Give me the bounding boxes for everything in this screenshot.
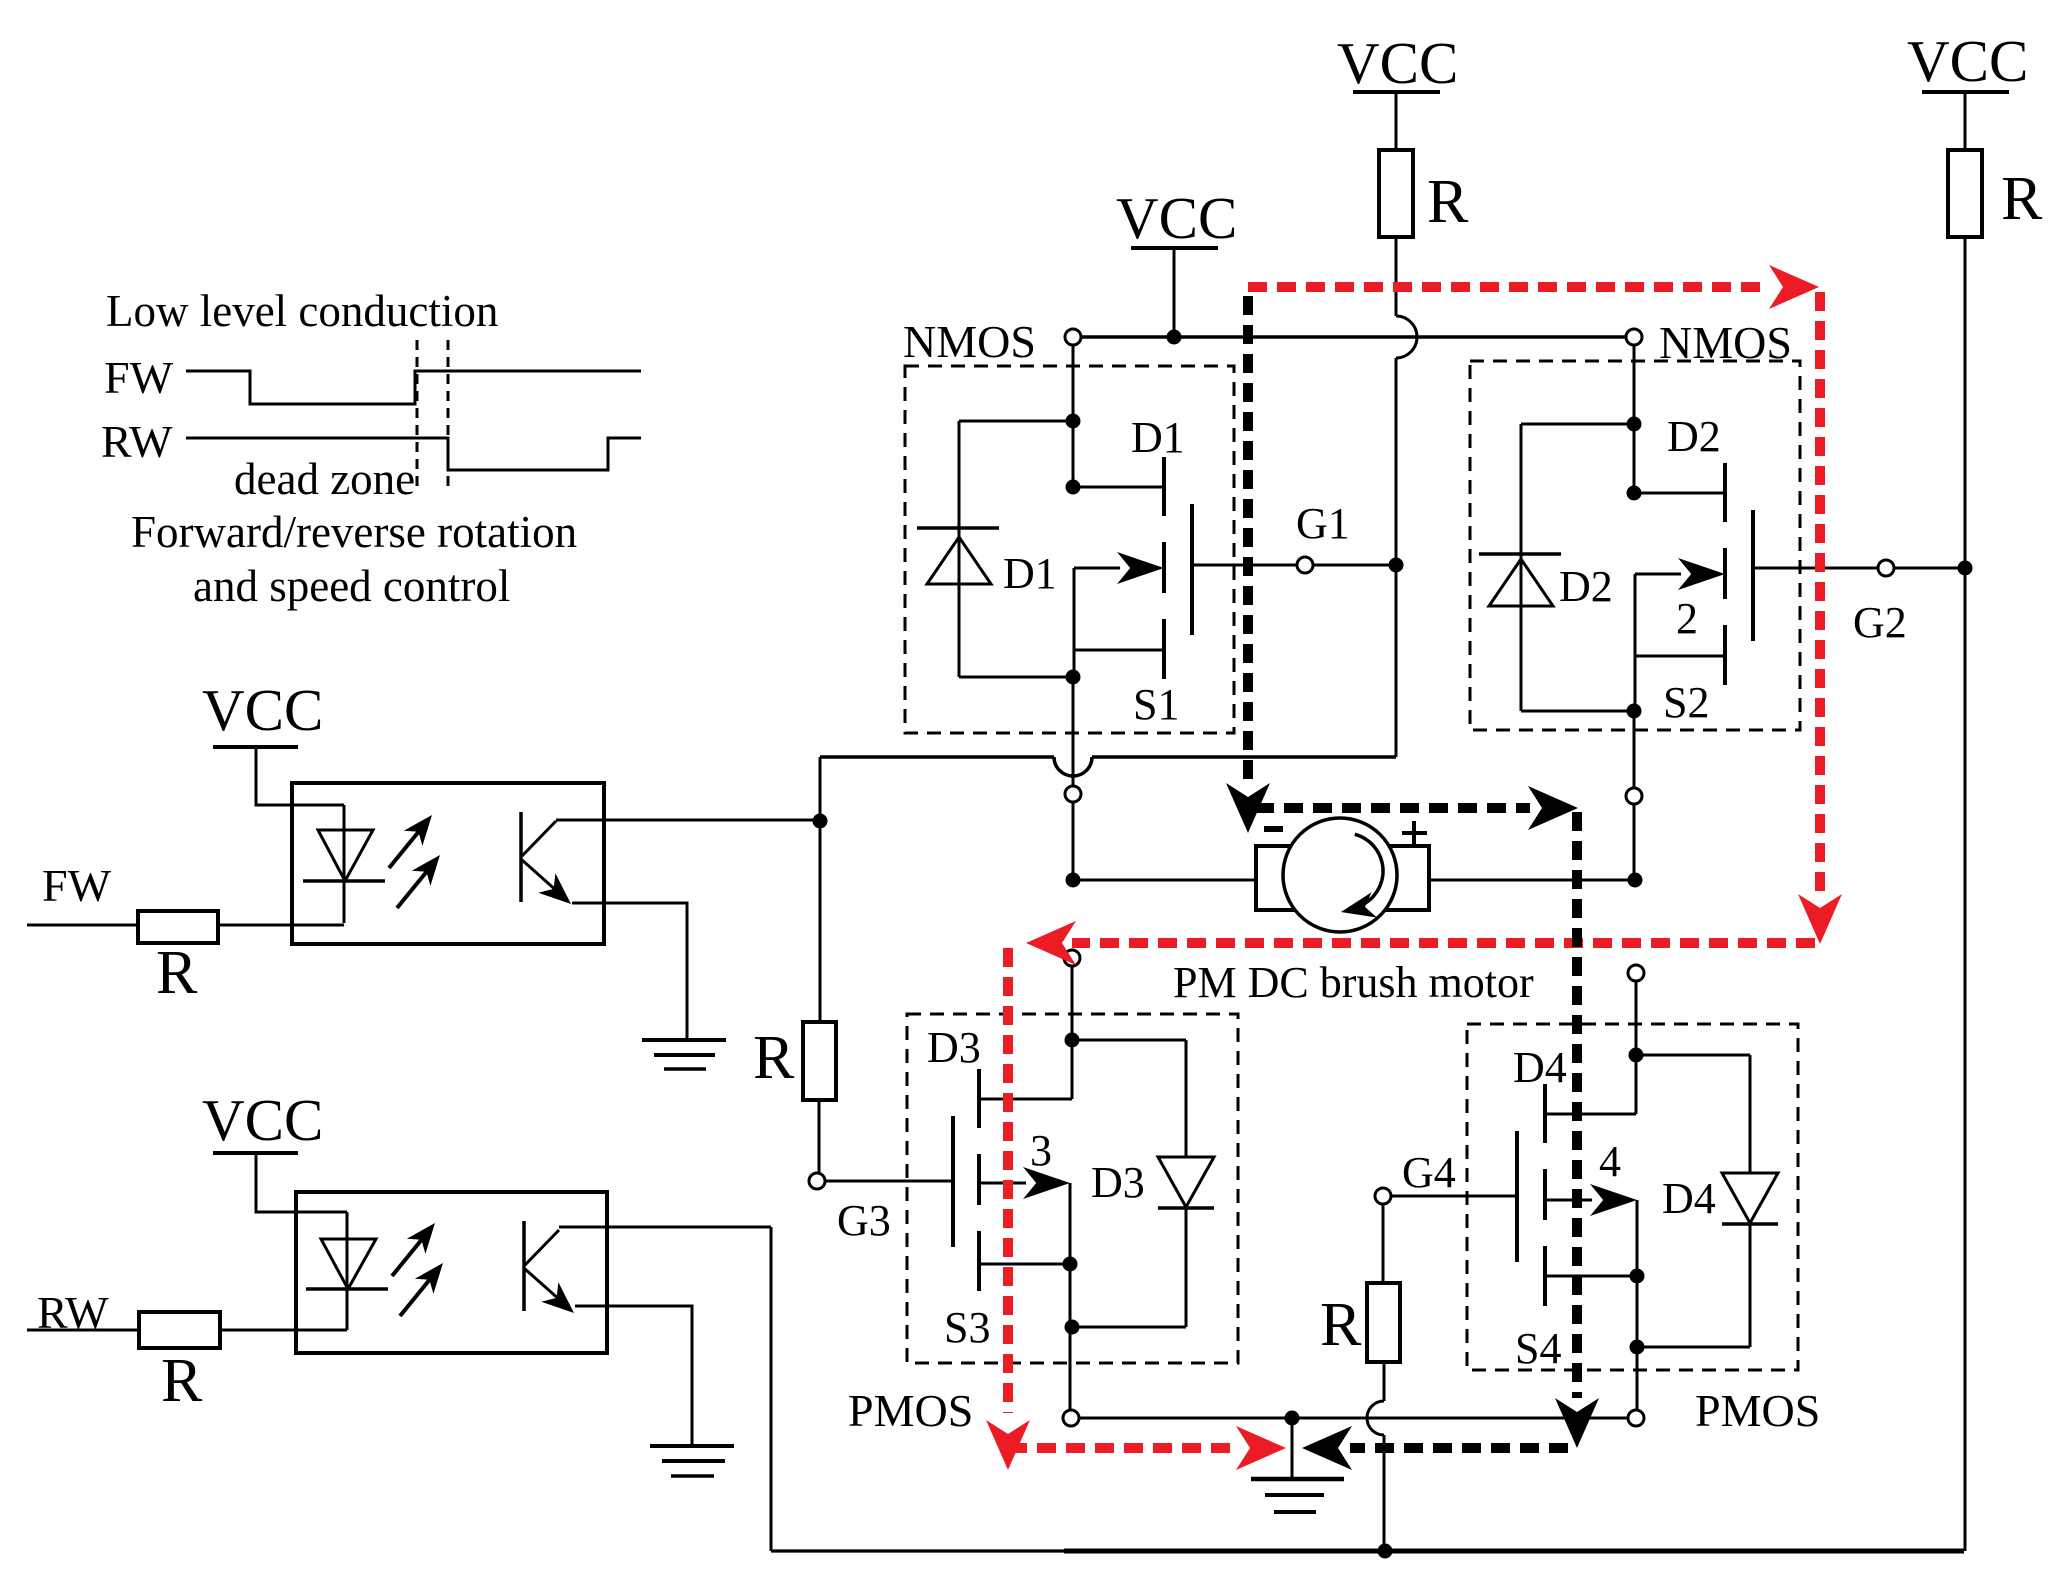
- wire motor right: [1429, 879, 1635, 882]
- optocoupler U1 box: [292, 783, 604, 944]
- node Q1 drain terminal: [1065, 329, 1081, 345]
- text NMOS label (Q1): [903, 316, 1036, 367]
- node Q1 source terminal: [1065, 786, 1081, 802]
- svg-text:NMOS: NMOS: [903, 316, 1036, 367]
- text R label (G1 pull-up): [1427, 168, 1469, 236]
- text: and speed control: [193, 561, 510, 611]
- wire Q1 gate-protect branch: [959, 421, 1073, 677]
- wire Q2 gate-protect branch: [1521, 424, 1634, 711]
- svg-text:D2: D2: [1667, 412, 1721, 461]
- power VCC (bridge supply): [1116, 185, 1237, 251]
- wire D3 to source: [1072, 1208, 1186, 1327]
- svg-text:S1: S1: [1133, 680, 1179, 729]
- svg-text:D3: D3: [927, 1023, 981, 1072]
- svg-text:PMOS: PMOS: [1695, 1385, 1820, 1436]
- wire black path right down: [1555, 812, 1599, 1448]
- node FW (timing label): [104, 352, 174, 403]
- node A junction (FW gate node): [813, 814, 828, 829]
- text PM DC brush motor: [1173, 958, 1534, 1007]
- wire Q3 drain lead: [979, 1098, 1072, 1101]
- diode D3 (protect): [1158, 1157, 1214, 1208]
- svg-text:VCC: VCC: [1907, 28, 2028, 94]
- text minus terminal: [1264, 826, 1283, 832]
- text S2 label: [1663, 678, 1709, 727]
- node Q3 top terminal: [1064, 950, 1080, 966]
- svg-text:PM DC brush motor: PM DC brush motor: [1173, 958, 1534, 1007]
- diode LED of U1: [303, 805, 385, 923]
- text D1 label (diode): [1003, 549, 1057, 598]
- node RW (timing label): [101, 416, 173, 467]
- wire FW waveform: [186, 371, 641, 404]
- wire G1 to pull-up: [1313, 564, 1396, 567]
- svg-text:and speed control: and speed control: [193, 561, 510, 611]
- svg-text:4: 4: [1599, 1137, 1621, 1186]
- transistor Q2 box: [1470, 361, 1800, 730]
- transistor Q4 gate bar: [1515, 1131, 1519, 1262]
- node D4 source junction: [1630, 1340, 1645, 1355]
- text S4 label: [1515, 1324, 1561, 1373]
- node Q4 source lead junction: [1630, 1269, 1645, 1284]
- node Q1 source junction: [1066, 670, 1081, 685]
- node Q4 top terminal: [1628, 965, 1644, 981]
- svg-text:VCC: VCC: [202, 1087, 323, 1153]
- text: Forward/reverse rotation: [131, 507, 577, 557]
- svg-text:Forward/reverse rotation: Forward/reverse rotation: [131, 507, 577, 557]
- wire VCC to R (right): [1964, 92, 1967, 150]
- motor M brush right: [1349, 846, 1429, 910]
- wire RW waveform: [186, 438, 641, 470]
- motor M brush left: [1256, 846, 1336, 910]
- svg-text:D1: D1: [1131, 413, 1185, 462]
- transistor Q4 channel: [1543, 1084, 1547, 1306]
- node RW input: [37, 1287, 109, 1338]
- node G1 terminal: [1297, 557, 1313, 573]
- svg-text:R: R: [753, 1024, 795, 1092]
- svg-text:FW: FW: [42, 860, 112, 911]
- wire Q4 source down: [1636, 1347, 1639, 1410]
- node bottom rail junction (G4 branch): [1378, 1544, 1393, 1559]
- wire G1 node to mid rail: [1395, 565, 1398, 757]
- wire D1 to source: [959, 676, 1073, 679]
- transistor Q6 phototransistor of U2: [524, 1221, 574, 1313]
- svg-text:S4: S4: [1515, 1324, 1561, 1373]
- wire red path top: [1248, 265, 1819, 309]
- wire Q1 source down: [1072, 677, 1075, 786]
- text D3 label (drain): [927, 1023, 981, 1072]
- svg-text:D2: D2: [1559, 562, 1613, 611]
- ground (U1 emitter): [642, 1040, 726, 1069]
- wire node A vertical: [819, 757, 822, 1022]
- optocoupler U2 box: [296, 1192, 607, 1353]
- wire G2 to pull-up: [1894, 567, 1965, 570]
- text PMOS label (Q4): [1695, 1385, 1820, 1436]
- transistor Q3 gate bar: [951, 1116, 955, 1247]
- wire black path rightward: [1255, 786, 1578, 830]
- node G2 pull-up junction: [1958, 561, 1973, 576]
- resistor R (FW input): [138, 911, 218, 943]
- wire Q1 drain lead: [1073, 486, 1164, 489]
- svg-text:G2: G2: [1853, 598, 1907, 647]
- svg-text:VCC: VCC: [202, 677, 323, 743]
- wire VCC to U2 LED anode: [256, 1153, 347, 1212]
- svg-text:RW: RW: [101, 416, 173, 467]
- wire VCC to R: [1395, 92, 1398, 150]
- node D3 source junction: [1065, 1320, 1080, 1335]
- power VCC (G1 pull-up): [1337, 30, 1458, 96]
- node Q1 feedback junction: [1066, 414, 1081, 429]
- node Q3 source terminal: [1063, 1410, 1079, 1426]
- light arrow 2 of U2: [400, 1263, 443, 1316]
- wire Q3 source connector: [979, 1183, 1070, 1327]
- wire U1 emitter to ground: [572, 903, 687, 1040]
- text: dead zone: [234, 454, 415, 504]
- wire Q3 source down: [1069, 1327, 1072, 1410]
- wire Q1 source connector: [1074, 568, 1164, 677]
- wire red path left down: [986, 948, 1030, 1470]
- svg-text:FW: FW: [104, 352, 174, 403]
- wire VCC to U1 LED anode: [256, 747, 344, 805]
- svg-text:G1: G1: [1296, 499, 1350, 548]
- wire bottom rail: [771, 1549, 1964, 1552]
- text D4 label (drain): [1513, 1043, 1567, 1092]
- svg-text:G4: G4: [1402, 1148, 1456, 1197]
- node Q3 feedback junction: [1065, 1033, 1080, 1048]
- svg-text:3: 3: [1030, 1126, 1052, 1175]
- wire RW input: [27, 1329, 139, 1332]
- svg-text:2: 2: [1676, 594, 1698, 643]
- wire S3 to S4 sources: [1079, 1417, 1628, 1420]
- resistor R (G4 series): [1367, 1283, 1400, 1362]
- text NMOS label (Q2): [1659, 317, 1792, 368]
- text R label (FW input): [156, 939, 198, 1007]
- text S3 label: [944, 1303, 990, 1352]
- svg-text:dead zone: dead zone: [234, 454, 415, 504]
- text PMOS label (Q3): [848, 1385, 973, 1436]
- wire VCC to top rail: [1173, 248, 1176, 337]
- node motor left junction: [1066, 873, 1081, 888]
- wire Q4 source connector: [1545, 1200, 1637, 1347]
- node G4 terminal: [1375, 1188, 1391, 1204]
- node Q4 feedback junction: [1629, 1048, 1644, 1063]
- light arrow 1 of U1: [389, 815, 432, 868]
- svg-text:D1: D1: [1003, 549, 1057, 598]
- wire Q3 top vertical: [1071, 966, 1074, 1099]
- wire Q2 drain vertical: [1633, 345, 1636, 493]
- text G2 label: [1853, 598, 1907, 647]
- power VCC (opto U2): [202, 1087, 323, 1153]
- wire FW input: [27, 924, 138, 927]
- svg-text:D4: D4: [1513, 1043, 1567, 1092]
- wire Q1 terminal to motor node: [1072, 802, 1075, 880]
- node motor right junction: [1628, 873, 1643, 888]
- node G3 terminal: [809, 1173, 825, 1189]
- node Q2 drain lead junction: [1627, 486, 1642, 501]
- transistor Q2 bulk arrow: [1635, 558, 1725, 590]
- text D2 label (drain): [1667, 412, 1721, 461]
- text plus terminal: [1402, 821, 1427, 846]
- text S1 label: [1133, 680, 1179, 729]
- node Q3 source lead junction: [1063, 1257, 1078, 1272]
- node top rail junction: [1167, 330, 1182, 345]
- transistor Q1 channel: [1162, 457, 1166, 679]
- svg-text:G3: G3: [837, 1196, 891, 1245]
- node G1 pull-up junction: [1389, 558, 1404, 573]
- transistor Q3 bulk arrow: [979, 1167, 1070, 1199]
- node Q2 feedback junction: [1627, 417, 1642, 432]
- svg-text:R: R: [2001, 165, 2043, 233]
- wire Q2 source down: [1633, 711, 1636, 788]
- diode D1 (protect): [917, 528, 999, 584]
- transistor Q1 bulk arrow: [1074, 552, 1164, 584]
- wire R down with hop over top rail: [1396, 237, 1417, 565]
- svg-text:VCC: VCC: [1116, 185, 1237, 251]
- wire R to G3: [818, 1100, 821, 1173]
- text 4 label (Q4): [1599, 1137, 1621, 1186]
- text D2 label (diode): [1559, 562, 1613, 611]
- node Q2 drain terminal: [1626, 329, 1642, 345]
- wire R to U2 LED cathode: [220, 1329, 347, 1332]
- wire Q2 drain lead: [1634, 492, 1725, 495]
- wire Q3 gate lead: [825, 1180, 953, 1183]
- wire black path top down: [1226, 296, 1270, 833]
- transistor Q3 box: [907, 1014, 1238, 1363]
- wire U2 collector to bottom rail riser: [559, 1226, 771, 1229]
- svg-text:D4: D4: [1662, 1174, 1716, 1223]
- diode LED of U2: [306, 1212, 388, 1330]
- text D1 label (drain): [1131, 413, 1185, 462]
- node Q1 drain lead junction: [1066, 480, 1081, 495]
- wire Q2 terminal to motor node: [1633, 804, 1636, 880]
- wire Q4 drain lead: [1545, 1113, 1636, 1116]
- wire Q4 gate lead: [1391, 1195, 1517, 1198]
- power VCC (opto U1): [202, 677, 323, 747]
- wire Q4 top vertical: [1635, 981, 1638, 1114]
- text G3 label: [837, 1196, 891, 1245]
- node Q4 source terminal: [1628, 1410, 1644, 1426]
- wire black path bottom to ground: [1302, 1426, 1568, 1470]
- resistor R (G3 series): [803, 1022, 836, 1100]
- svg-text:VCC: VCC: [1337, 30, 1458, 96]
- transistor Q5 phototransistor of U1: [521, 812, 571, 904]
- light arrow 2 of U1: [397, 855, 440, 908]
- node FW input: [42, 860, 112, 911]
- wire Q4 gate-protect branch: [1636, 1055, 1750, 1173]
- transistor Q3 channel: [977, 1069, 981, 1291]
- svg-text:Low level conduction: Low level conduction: [106, 286, 498, 336]
- wire D4 to source: [1637, 1224, 1750, 1347]
- wire top rail: [1081, 335, 1627, 339]
- svg-text:R: R: [161, 1347, 203, 1415]
- transistor Q2 gate bar: [1751, 510, 1755, 641]
- resistor R (RW input): [139, 1312, 220, 1348]
- text G1 label: [1296, 499, 1350, 548]
- svg-text:R: R: [156, 939, 198, 1007]
- text R label (G4 series): [1320, 1291, 1362, 1359]
- text R label (G2 pull-up): [2001, 165, 2043, 233]
- text 2 label (Q2): [1676, 594, 1698, 643]
- text D3 label (diode): [1091, 1158, 1145, 1207]
- transistor Q1 box: [905, 366, 1234, 733]
- wire D2 to source: [1521, 710, 1634, 713]
- wire G4 to R: [1382, 1204, 1385, 1283]
- wire dead-zone marker right (dashed): [447, 340, 450, 493]
- transistor Q2 channel: [1723, 463, 1727, 685]
- wire red path bottom to ground: [1008, 1426, 1286, 1470]
- svg-text:R: R: [1427, 168, 1469, 236]
- wire Q1 gate lead: [1192, 564, 1297, 567]
- transistor Q4 bulk arrow: [1545, 1184, 1637, 1216]
- text G4 label: [1402, 1148, 1456, 1197]
- wire Q2 gate lead: [1753, 567, 1878, 570]
- wire Q2 source connector: [1635, 574, 1725, 711]
- light arrow 1 of U2: [392, 1223, 435, 1276]
- text 3 label (Q3): [1030, 1126, 1052, 1175]
- svg-text:R: R: [1320, 1291, 1362, 1359]
- wire bottom rail right riser joins G2 line: [1963, 1549, 1966, 1551]
- svg-text:PMOS: PMOS: [848, 1385, 973, 1436]
- motor M body: [1283, 818, 1397, 932]
- resistor R (G2 pull-up): [1948, 150, 1982, 237]
- wire red path mid leftward: [1026, 921, 1815, 965]
- text R label (RW input): [161, 1347, 203, 1415]
- resistor R (G1 pull-up): [1379, 150, 1413, 237]
- wire red path right down: [1798, 292, 1842, 944]
- wire motor left: [1073, 879, 1256, 882]
- wire dead-zone marker left (dashed): [416, 340, 419, 493]
- ground (bridge): [1251, 1418, 1344, 1512]
- wire bottom rail left riser (RW gate): [770, 1227, 773, 1551]
- diode D2 (protect): [1479, 554, 1561, 606]
- power VCC (G2 pull-up): [1907, 28, 2028, 94]
- wire U2 emitter to ground: [575, 1306, 692, 1446]
- wire Q3 gate-protect branch: [1072, 1040, 1186, 1157]
- motor rotation arrow: [1341, 834, 1383, 917]
- node Q2 source terminal: [1626, 788, 1642, 804]
- transistor Q1 gate bar: [1190, 504, 1194, 635]
- diode D4 (protect): [1722, 1173, 1778, 1224]
- svg-text:D3: D3: [1091, 1158, 1145, 1207]
- node ground junction: [1285, 1411, 1300, 1426]
- svg-text:S2: S2: [1663, 678, 1709, 727]
- wire G2 node down to bottom rail: [1964, 568, 1967, 1551]
- wire R down with hop over source wire: [1367, 1362, 1384, 1551]
- node G2 terminal: [1878, 560, 1894, 576]
- wire R to U1 LED cathode: [218, 924, 344, 927]
- wire Q1 drain vertical: [1072, 345, 1075, 487]
- wire R down to G2 node: [1964, 237, 1967, 568]
- text R label (G3 series): [753, 1024, 795, 1092]
- text D4 label (diode): [1662, 1174, 1716, 1223]
- wire mid rail with hop over S1 line: [820, 757, 1396, 776]
- node Q2 source junction: [1627, 704, 1642, 719]
- transistor Q4 box: [1467, 1024, 1798, 1370]
- wire U1 collector to node A: [556, 819, 820, 822]
- svg-text:S3: S3: [944, 1303, 990, 1352]
- text: Low level conduction: [106, 286, 498, 336]
- ground (U2 emitter): [650, 1446, 734, 1476]
